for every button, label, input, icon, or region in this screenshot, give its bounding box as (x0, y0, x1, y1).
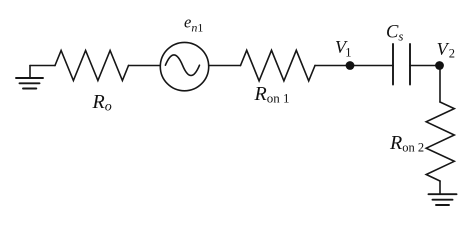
svg-text:V2: V2 (437, 39, 455, 61)
wire (129, 65, 160, 67)
wire (439, 66, 441, 103)
svg-text:Cs: Cs (386, 23, 403, 44)
ground GND1 (16, 66, 43, 89)
svg-text:Ron 1: Ron 1 (254, 83, 290, 106)
svg-text:Ro: Ro (92, 91, 112, 115)
wire (30, 65, 55, 67)
resistor Ro (55, 51, 129, 81)
wire (439, 181, 441, 194)
resistor Ron1 (241, 50, 316, 81)
wire (410, 65, 440, 67)
svg-text:V1: V1 (335, 37, 352, 60)
node V1 (346, 61, 355, 70)
wire (210, 65, 241, 67)
svg-text:en1: en1 (184, 13, 203, 35)
voltage source en1 (160, 42, 208, 90)
resistor Ron2 (426, 102, 454, 181)
ground GND2 (429, 194, 457, 205)
svg-text:Ron 2: Ron 2 (389, 132, 424, 155)
capacitor Cs (393, 44, 410, 85)
wire (315, 65, 393, 67)
node V2 (435, 61, 444, 70)
